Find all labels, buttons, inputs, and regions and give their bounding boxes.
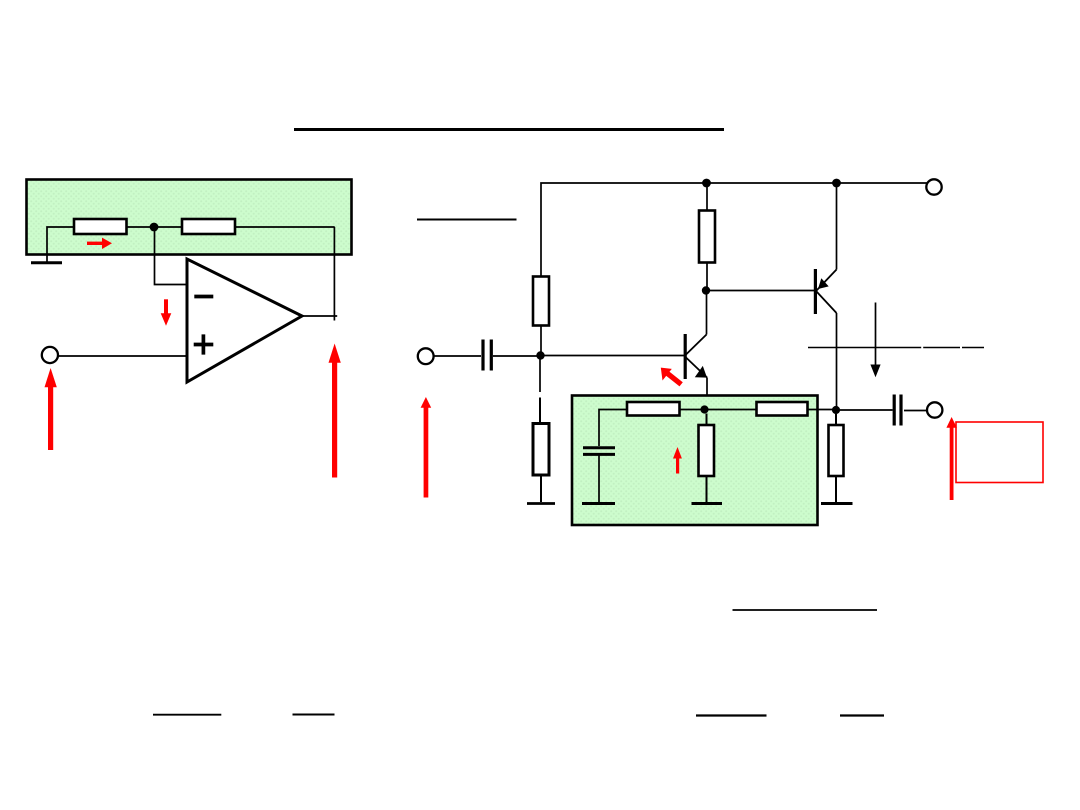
ground <box>821 502 853 505</box>
wire: R9 to ground <box>835 476 837 502</box>
transistor Q2 (PNP) <box>815 269 836 314</box>
node on rail 2 <box>832 179 841 188</box>
node on rail <box>702 179 711 188</box>
resistor R2 <box>182 219 235 234</box>
resistor R9 <box>829 425 844 476</box>
underline bottom right 1 <box>696 714 767 716</box>
black arrow down <box>870 303 880 378</box>
transistor Q1 (NPN) <box>685 334 707 379</box>
bias network highlight box <box>572 396 818 526</box>
wire: node to R8 <box>706 414 708 426</box>
feedback network highlight box <box>27 180 352 255</box>
input terminal right <box>418 348 434 364</box>
red arrow input voltage up <box>45 368 57 450</box>
wire: node to inverting input <box>155 227 188 285</box>
wire: node to C3 <box>840 409 893 411</box>
underline bottom left 2 <box>293 714 335 716</box>
wire: rail to R5 <box>706 183 708 211</box>
wire: C1 to node <box>493 355 537 357</box>
wire: ground to R1 <box>47 227 74 262</box>
output terminal <box>927 402 942 417</box>
red arrow output up <box>946 417 957 500</box>
wire: R2 to output branch <box>235 226 335 228</box>
underline (label) <box>417 218 517 220</box>
red callout box <box>956 422 1043 483</box>
wire: node down (upper segment) <box>539 360 541 393</box>
wire: Q2 emitter up to rail <box>836 185 838 270</box>
red arrow up-left (base current) <box>661 368 683 387</box>
red current arrow right <box>87 238 112 249</box>
wire: node to Q2 base <box>706 290 814 292</box>
wire: R4 to ground <box>540 475 542 502</box>
wire: R1 to node <box>127 226 153 228</box>
resistor R7 <box>757 402 808 416</box>
wire: R5 to node <box>706 263 708 291</box>
red arrow input right up <box>421 397 432 498</box>
resistor R5 <box>699 211 715 263</box>
wire: Q1 emitter down <box>706 378 708 408</box>
op-amp U1 <box>187 259 302 382</box>
node collector <box>702 286 710 294</box>
ground <box>692 502 723 505</box>
wire: top supply rail <box>541 183 927 277</box>
resistor R4 <box>533 424 549 476</box>
wire: R3 to input node <box>540 326 542 356</box>
red arrow current down <box>161 299 172 326</box>
minus sign <box>194 295 213 299</box>
resistor R1 <box>74 219 127 234</box>
input node <box>536 351 544 359</box>
wire: C2 to ground <box>598 456 600 503</box>
ground <box>582 502 615 505</box>
node emitter <box>700 405 708 413</box>
underline bottom left 1 <box>153 714 221 716</box>
underline segment <box>962 347 984 349</box>
title underline <box>294 128 724 131</box>
underline bottom right 2 <box>840 714 884 716</box>
wire: node to Q1 base <box>544 355 684 357</box>
resistor R6 <box>627 402 680 416</box>
wire: op-amp output <box>302 315 337 317</box>
wire: R8 to ground <box>706 476 708 502</box>
capacitor C2 bypass <box>583 448 615 455</box>
node output <box>832 406 840 414</box>
wire: node down (lower segment) <box>539 398 541 424</box>
underline segment <box>808 347 921 349</box>
ground <box>31 261 62 264</box>
resistor R8 <box>699 425 715 476</box>
node junction <box>150 223 159 232</box>
wire: node to R9 <box>835 414 837 425</box>
wire: input terminal to non-inverting input <box>58 355 187 357</box>
ground <box>527 502 555 505</box>
red arrow output voltage up <box>329 344 341 478</box>
wire: Q2 collector down <box>836 313 838 407</box>
wire: terminal to C1 <box>434 355 481 357</box>
plus sign <box>194 334 214 354</box>
input terminal <box>42 347 58 363</box>
capacitor C1 <box>483 340 491 371</box>
supply terminal <box>926 179 941 194</box>
wire: Q1 collector up <box>706 293 708 335</box>
resistor R3 <box>533 277 549 326</box>
wire: C3 to output terminal <box>904 410 927 412</box>
wire: emitter rail inside box <box>599 410 836 447</box>
wire: node to R2 <box>156 226 182 228</box>
red arrow up small <box>673 447 682 474</box>
capacitor C3 <box>894 395 901 426</box>
underline segment <box>923 347 960 349</box>
wire: output feedback vertical <box>333 227 335 321</box>
underline bottom right long <box>733 609 878 611</box>
